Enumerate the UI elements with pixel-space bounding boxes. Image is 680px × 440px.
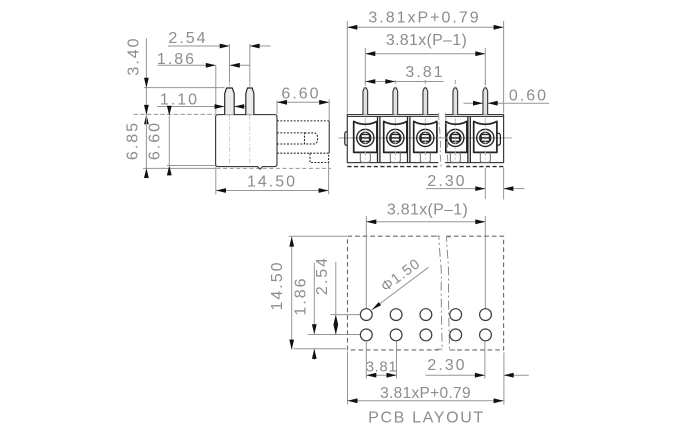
front view: position 1 screw inner circle xyxy=(360,132,371,143)
front view: terminal position 3 clamp plate xyxy=(414,121,437,152)
svg-text:6.60: 6.60 xyxy=(147,121,164,160)
dimension 2.54 (pcb row spacing) xyxy=(335,262,337,335)
dimension 2.30 (last pin to edge, front view) xyxy=(426,188,485,190)
side view: extension line at body top level xyxy=(134,113,216,115)
front view: position 5 pin tab below plate xyxy=(480,152,490,162)
svg-text:2.54: 2.54 xyxy=(314,256,331,295)
front view: position 3 pin tab below plate xyxy=(420,152,430,162)
front view: pin 3 xyxy=(423,88,428,115)
svg-text:14.50: 14.50 xyxy=(247,174,297,191)
pcb layout: top row extension line (2.54) xyxy=(331,314,361,316)
dimension 14.50 (pcb height) xyxy=(291,236,293,349)
pcb layout: hole row2 position 2 xyxy=(390,329,402,341)
front view: terminal position 5 clamp plate xyxy=(474,121,497,152)
pcb layout: rect-right bottom extension line xyxy=(503,353,505,405)
front view: housing outline xyxy=(347,115,503,163)
pcb layout: rect-left bottom extension line xyxy=(347,352,349,405)
svg-text:2.54: 2.54 xyxy=(168,30,207,47)
front view: partition wall after position 4 xyxy=(467,117,469,163)
pcb layout: hole row1 position 4 xyxy=(450,309,462,321)
side view: pin 2 centerline xyxy=(249,44,251,87)
pcb layout: outline dashed rectangle xyxy=(348,236,504,350)
side view: pin 1 xyxy=(225,88,235,115)
svg-text:2.30: 2.30 xyxy=(427,357,466,374)
svg-text:2.30: 2.30 xyxy=(427,173,466,190)
pcb layout: rect-top extension line (14.50) xyxy=(289,235,347,237)
side view: extension line 6.60 bottom reference xyxy=(167,165,215,167)
front view: right wire-entry bump at last plate xyxy=(497,133,501,145)
front view: position 5 vertical centerline xyxy=(484,118,486,161)
front view: position 5 screw slot xyxy=(481,135,489,142)
front view: break line left xyxy=(439,113,442,169)
side view: pin 1 centerline xyxy=(229,44,231,87)
front view: left wire-entry bump xyxy=(345,132,348,145)
pcb layout: hole row1 position 5 xyxy=(480,309,492,321)
front view: partition wall after position 1 xyxy=(377,117,379,163)
front view: position 3 screw outer circle xyxy=(417,129,434,146)
pcb layout: hole row2 position 3 xyxy=(420,329,432,341)
dimension 1.86 (pcb, bottom row to edge) xyxy=(313,263,315,335)
dimension 3.40 (pin height, vertical) xyxy=(145,38,147,114)
front view: left edge extension line (overall dim) xyxy=(346,21,348,114)
dimension 3.81xP+0.79 (pcb overall width) xyxy=(348,400,504,402)
front view: pin 2 xyxy=(393,88,398,115)
pcb layout: hole row2 position 1 xyxy=(360,329,372,341)
dimension 6.85 (body height, vertical) xyxy=(145,115,147,168)
svg-text:0.60: 0.60 xyxy=(509,87,548,104)
front view: terminal position 4 clamp plate xyxy=(446,121,467,152)
dimension 14.50 (overall length) xyxy=(216,190,329,192)
front view: terminal position 2 clamp plate xyxy=(384,121,407,152)
pcb layout: hole1 bottom extension line xyxy=(365,341,367,378)
svg-text:3.81: 3.81 xyxy=(366,358,398,375)
pcb layout: bottom row extension line (2.54 / 1.86) xyxy=(308,334,360,336)
front view: position 4 screw inner circle xyxy=(450,132,461,143)
side view: connector housing body xyxy=(216,115,277,167)
pcb layout: hole5 bottom extension line xyxy=(484,341,486,378)
svg-text:3.81x(P–1): 3.81x(P–1) xyxy=(387,201,468,218)
svg-text:1.10: 1.10 xyxy=(160,92,199,109)
dimension 3.81x(P-1) (pin span) xyxy=(365,53,485,55)
front view: break line right xyxy=(446,113,449,169)
front view: housing bottom dashed line xyxy=(347,166,503,168)
front view: pin 1 xyxy=(363,88,368,115)
side view: pin 2 xyxy=(246,88,254,115)
svg-text:1.86: 1.86 xyxy=(157,51,196,68)
dimension 3.81 (pitch) xyxy=(365,81,443,83)
front view: position 3 vertical centerline xyxy=(424,118,426,161)
side view: extension line at pin top level xyxy=(144,87,225,89)
svg-text:3.40: 3.40 xyxy=(126,36,143,75)
side view: dashed extension under body bottom xyxy=(217,167,332,169)
pcb layout: break line left xyxy=(434,236,443,349)
svg-text:14.50: 14.50 xyxy=(269,260,286,310)
pcb layout: hole row1 position 2 xyxy=(390,309,402,321)
side view: mounting tab bottom right xyxy=(310,153,329,162)
dimension 1.86 (edge to pin, side view) xyxy=(158,64,216,66)
svg-text:3.81: 3.81 xyxy=(405,64,444,81)
side view: wire entry extension block (hidden lines) xyxy=(277,120,329,122)
svg-text:6.60: 6.60 xyxy=(281,85,320,102)
svg-text:3.81xP+0.79: 3.81xP+0.79 xyxy=(368,9,480,26)
pcb layout: hole row1 position 3 xyxy=(420,309,432,321)
side view: extension line 6.85 bottom reference xyxy=(143,167,215,169)
front view: position 1 screw outer circle xyxy=(357,129,374,146)
front view: position 2 screw outer circle xyxy=(387,129,404,146)
front view: horizontal centerline through screws xyxy=(339,137,513,139)
front view: position 3 screw inner circle xyxy=(420,132,431,143)
front view: position 1 vertical centerline xyxy=(364,118,366,161)
dimension 3.81xP+0.79 (overall width, top) xyxy=(347,26,503,28)
svg-text:1.86: 1.86 xyxy=(293,276,310,315)
front view: partition wall after position 2 xyxy=(407,117,409,163)
front view: position 4 pin tab below plate xyxy=(450,152,460,162)
front view: position 2 pin tab below plate xyxy=(390,152,400,162)
front view: position 1 screw slot xyxy=(361,135,369,142)
front view: position 2 screw inner circle xyxy=(390,132,401,143)
front view: position 4 screw slot xyxy=(451,135,459,142)
dimension 2.30 (pcb, hole to edge) xyxy=(425,374,484,376)
front view: position 2 vertical centerline xyxy=(394,118,396,161)
front view: position 4 vertical centerline xyxy=(454,118,456,161)
pcb layout: rect-bottom extension line (14.50 / 1.86) xyxy=(294,348,347,350)
front view: pin1 centerline extension xyxy=(364,48,366,86)
front view: position 5 screw outer circle xyxy=(477,129,494,146)
front view: pin 4 xyxy=(453,88,458,115)
front view: position 1 pin tab below plate xyxy=(360,152,370,162)
front view: right edge extension line (overall dim) xyxy=(503,21,505,113)
pcb layout: hole5 top extension line xyxy=(484,216,486,309)
side view: wire cavity slot (hidden lines) xyxy=(277,132,305,134)
front view: position 3 screw slot xyxy=(421,135,429,142)
dimension 1.10 (pin width, side view) xyxy=(157,106,224,108)
svg-text:3.81x(P–1): 3.81x(P–1) xyxy=(386,32,467,49)
front view: position 5 screw inner circle xyxy=(480,132,491,143)
pcb layout: leader line for hole diameter xyxy=(372,267,429,309)
dimension 3.81 (pcb hole pitch) xyxy=(366,374,396,376)
dimension 0.60 (pin width) xyxy=(464,102,483,104)
svg-text:3.81xP+0.79: 3.81xP+0.79 xyxy=(380,385,471,402)
pcb layout: hole row2 position 5 xyxy=(480,329,492,341)
pcb layout: hole1 top extension line to dim above xyxy=(365,216,367,309)
side view: PCB locating peg notch xyxy=(258,167,263,170)
front view: position 2 screw slot xyxy=(391,135,399,142)
svg-text:PCB LAYOUT: PCB LAYOUT xyxy=(368,410,485,427)
front view: housing top inner line xyxy=(347,116,503,118)
pcb layout: break gap whiteout on dashed rect edges xyxy=(440,234,446,239)
dimension 6.60 horizontal (extension length) xyxy=(277,101,329,103)
pcb layout: hole row1 position 1 xyxy=(360,309,372,321)
pcb layout: hole2 bottom extension line xyxy=(396,341,398,378)
front view: pin 5 xyxy=(483,88,488,115)
front view: terminal position 1 clamp plate xyxy=(354,121,377,152)
side view: clamp latch inside cavity xyxy=(305,133,318,144)
front view: centerline across break gap xyxy=(437,137,447,139)
pcb layout: hole row2 position 4 xyxy=(450,329,462,341)
front view: position 4 screw outer circle xyxy=(447,129,464,146)
svg-text:6.85: 6.85 xyxy=(125,121,142,160)
pcb layout: break line right xyxy=(447,237,456,350)
dimension 3.81x(P-1) (pcb, top) xyxy=(366,221,485,223)
dimension 6.60 vertical (body height) xyxy=(168,116,170,166)
front view: break gap whiteout xyxy=(438,113,445,170)
side view: body-left vertical extension line xyxy=(215,65,217,113)
dimension 2.54 (pin spacing, side view) xyxy=(168,45,229,47)
front view: pin5 centerline extension xyxy=(484,48,486,86)
